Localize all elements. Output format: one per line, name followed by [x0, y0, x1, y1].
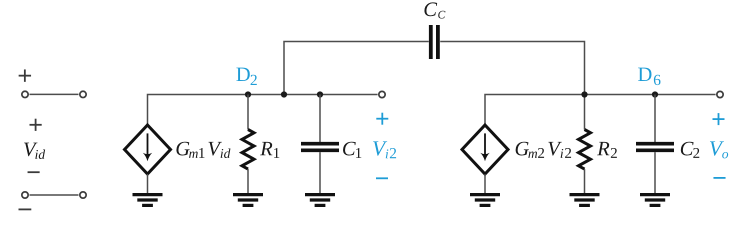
junction dot C2/bus	[652, 91, 658, 97]
node D2 label	[236, 68, 256, 85]
input port top terminal left	[22, 91, 28, 97]
label C2	[681, 142, 699, 158]
label R1	[260, 142, 279, 158]
label R2	[597, 142, 617, 158]
Vid plus label	[30, 119, 42, 131]
input port bottom terminal left	[22, 192, 28, 198]
node D6 label	[638, 68, 660, 86]
ground C2	[640, 195, 670, 206]
capacitor C2	[636, 95, 674, 194]
wire CC right riser down to R2	[440, 42, 584, 130]
resistor R1	[242, 95, 254, 194]
ground Gm1	[133, 195, 163, 206]
wire bottom port	[30, 194, 79, 196]
source Vid label	[24, 143, 45, 159]
label C1	[343, 142, 361, 158]
wire stage2 bus (node D6)	[485, 95, 716, 126]
junction dot CC/bus	[281, 91, 287, 97]
junction dot CC-R2/bus	[581, 91, 587, 97]
ground C1	[305, 195, 335, 206]
wire Gm1 to ground	[147, 174, 149, 193]
input port minus label (bottom-left)	[19, 208, 32, 210]
label Vi2 plus (cyan)	[376, 113, 388, 125]
wire stage1 bus (node D2)	[148, 95, 378, 126]
ground Gm2	[470, 195, 500, 206]
label Vi2 (cyan)	[373, 141, 396, 158]
capacitor C1	[301, 95, 339, 194]
resistor R2	[579, 130, 591, 194]
label Vi2 minus (cyan)	[376, 177, 388, 179]
wire top port	[30, 93, 79, 95]
ground R2	[570, 195, 600, 206]
junction dot C1/bus	[317, 91, 323, 97]
wire Gm2 to ground	[484, 174, 486, 193]
label Gm1Vid	[176, 142, 230, 158]
label Gm2Vi2	[516, 142, 571, 158]
junction dot R1/bus	[245, 91, 251, 97]
label CC	[424, 2, 445, 18]
capacitor CC	[431, 25, 438, 59]
terminal Vi2	[379, 91, 385, 97]
terminal Vo	[717, 91, 723, 97]
input port plus label (top-left)	[19, 69, 31, 81]
ground R1	[233, 195, 263, 206]
input port top terminal right	[80, 91, 86, 97]
label Vo plus (cyan)	[713, 113, 725, 125]
dependent source Gm1Vid (diamond)	[125, 125, 171, 174]
Vid minus label	[28, 171, 40, 173]
label Vo minus (cyan)	[713, 177, 725, 179]
label Vo (cyan)	[710, 141, 728, 158]
dependent source Gm2Vi2 (diamond)	[462, 125, 508, 174]
input port bottom terminal right	[80, 192, 86, 198]
wire CC left riser	[284, 42, 429, 95]
